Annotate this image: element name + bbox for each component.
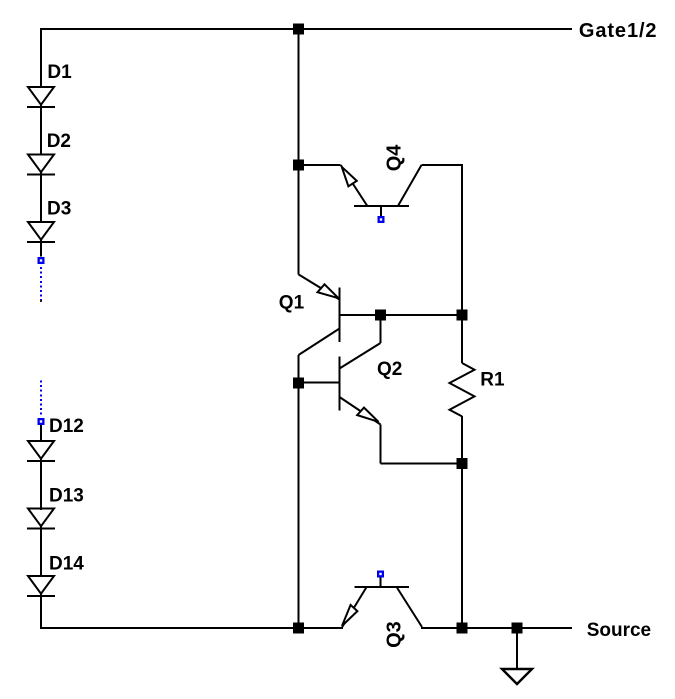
wire between D12 and D13 — [40, 459, 42, 510]
wire above D12 — [40, 425, 42, 442]
transistor Q2 — [340, 343, 381, 425]
diode D14 — [27, 576, 55, 596]
wire stub below D3 — [40, 240, 42, 257]
svg-text:D1: D1 — [47, 62, 72, 83]
wire Q4 collector horizontal — [422, 164, 463, 166]
port marker square lower — [38, 418, 45, 425]
svg-text:D3: D3 — [47, 198, 71, 219]
svg-text:Q1: Q1 — [279, 293, 305, 314]
svg-text:D2: D2 — [47, 131, 71, 152]
transistor Q1 — [299, 274, 340, 355]
svg-text:Q2: Q2 — [377, 359, 402, 380]
wire bottom rail Source — [40, 627, 343, 629]
wire Q4 emitter horizontal — [299, 164, 341, 166]
wire ground stub — [516, 628, 518, 669]
wire Q2 collector vertical — [380, 314, 382, 343]
wire bottom rail right of Q3 — [421, 627, 572, 629]
wire center rail upper — [298, 28, 300, 274]
transistor Q4 — [341, 165, 422, 206]
svg-text:R1: R1 — [480, 370, 505, 391]
diode D13 — [27, 509, 55, 529]
wire Q4 base stub — [380, 206, 382, 216]
resistor R1 — [450, 363, 475, 416]
port marker Q4 base — [378, 216, 385, 223]
svg-text:Gate1/2: Gate1/2 — [579, 20, 658, 42]
wire Q3 base stub — [380, 578, 382, 587]
diode D2 — [27, 155, 55, 175]
junction bottom center rail — [293, 623, 304, 634]
svg-text:D14: D14 — [49, 554, 84, 575]
diode D1 — [27, 87, 55, 107]
svg-text:Q4: Q4 — [383, 144, 405, 172]
wire Q2 base horizontal — [299, 382, 340, 384]
wire between D13 and D14 — [40, 527, 42, 578]
wire Q2 emitter horizontal — [381, 463, 463, 465]
svg-text:Source: Source — [587, 620, 651, 641]
svg-text:Q3: Q3 — [383, 621, 405, 648]
junction bottom right rail — [457, 623, 468, 634]
junction ground branch — [512, 623, 523, 634]
dotted continuation lower — [40, 381, 42, 416]
end dot of upper dotted continuation — [40, 300, 42, 302]
diode D3 — [27, 222, 55, 242]
junction top T — [293, 24, 304, 35]
junction R1 top — [457, 310, 468, 321]
junction Q2 base — [293, 378, 304, 389]
wire right rail lower — [461, 416, 463, 629]
svg-text:D13: D13 — [49, 486, 84, 507]
transistor Q3 — [342, 587, 422, 627]
port marker Q3 base — [377, 571, 384, 578]
wire Q1 base horizontal — [340, 314, 463, 316]
junction base node — [375, 310, 386, 321]
wire right rail upper — [461, 164, 463, 363]
wire Q2 emitter vertical — [380, 425, 382, 464]
wire left rail top segment — [40, 28, 42, 88]
wire center rail lower — [298, 355, 300, 629]
wire between D2 and D3 — [40, 173, 42, 224]
wire top rail Gate1/2 — [40, 28, 572, 30]
ground — [502, 669, 532, 684]
junction Q4 branch — [293, 160, 304, 171]
svg-text:D12: D12 — [49, 416, 84, 437]
wire between D1 and D2 — [40, 105, 42, 156]
wire below D14 to bottom rail — [40, 594, 42, 629]
diode D12 — [27, 441, 55, 461]
junction R1 bottom — [457, 458, 468, 469]
dotted continuation upper — [40, 267, 42, 302]
port marker square upper — [38, 257, 45, 264]
